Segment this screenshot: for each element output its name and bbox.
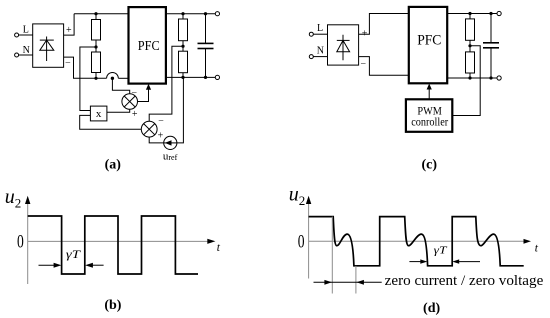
- svg-text:u2: u2: [289, 183, 306, 208]
- junction current sense tap: [111, 77, 114, 80]
- waveform with resonant transitions u2 (d): [309, 217, 524, 266]
- wire top rail right (c): [447, 13, 497, 15]
- svg-text:x: x: [96, 108, 102, 120]
- resistor R4: [179, 46, 188, 77]
- resistor R5: [466, 14, 475, 46]
- op block U2 PFC (c): [409, 7, 447, 83]
- wire output divider tap to S2: [149, 46, 183, 121]
- arrowhead into PFC (c): [427, 84, 432, 90]
- terminal output top (c): [497, 11, 501, 15]
- wire BR1 minus to bottom rail: [64, 57, 107, 78]
- wire BR2 plus to top rail: [359, 14, 409, 35]
- op block U1 PFC (a): [129, 7, 166, 84]
- terminal output bottom (a): [215, 75, 219, 79]
- wire hump to PFC left: [118, 77, 128, 79]
- resistor R1: [92, 14, 101, 47]
- axis horizontal t (b): [28, 240, 208, 242]
- svg-text:PFC: PFC: [138, 39, 160, 54]
- resistor R2: [92, 47, 101, 78]
- wire BR1 plus to top rail: [64, 14, 75, 35]
- wire L to rectifier (a): [19, 34, 33, 36]
- wire S2 to uref source: [149, 137, 164, 143]
- waveform square wave u2 (b): [28, 216, 198, 274]
- resistor R3: [179, 14, 188, 47]
- svg-text:zero current / zero voltage: zero current / zero voltage: [385, 273, 544, 289]
- terminal output bottom (c): [497, 76, 501, 80]
- resistor R6: [466, 46, 475, 78]
- wire bottom rail right (a): [166, 76, 216, 78]
- multiplier X1 box: [90, 106, 107, 121]
- summer S2 circle: [141, 121, 157, 137]
- terminal output top (a): [215, 12, 219, 16]
- wire L to rectifier (c): [313, 33, 327, 35]
- junction R4 bottom: [181, 76, 184, 79]
- svg-text:γT: γT: [434, 245, 448, 257]
- arrowhead into PFC (a): [146, 84, 151, 90]
- wire S1 output to PFC gate: [138, 89, 149, 102]
- wire divider tap to PWM controller: [452, 46, 480, 116]
- summer S1 circle: [122, 94, 138, 110]
- axis vertical u2 (d): [308, 203, 310, 279]
- PWM controller box: [406, 99, 452, 132]
- capacitor C1: [198, 14, 214, 78]
- interval arrow right (d): [356, 280, 364, 285]
- svg-text:u2: u2: [5, 186, 22, 210]
- dim arrow left (b): [39, 263, 62, 268]
- svg-text:–: –: [65, 57, 71, 67]
- marker line transition start (d): [331, 217, 333, 294]
- junction R5 R6 midpoint: [468, 44, 471, 47]
- terminal L input (a): [15, 33, 19, 37]
- dim arrow left gammaT (d): [409, 259, 427, 263]
- terminal N input (a): [15, 53, 19, 57]
- bridge rectifier BR2 box: [328, 25, 359, 65]
- wire PWM to PFC gate: [428, 89, 430, 99]
- wire top rail left (a): [74, 13, 128, 15]
- junction R2 bottom: [94, 77, 97, 80]
- svg-text:t: t: [217, 242, 221, 254]
- wire current tap to summer S1: [112, 78, 129, 93]
- wire bottom rail right (c): [447, 77, 497, 79]
- axis arrowhead right (b): [207, 239, 215, 244]
- svg-text:(b): (b): [104, 298, 121, 313]
- svg-text:uref: uref: [163, 150, 178, 162]
- axis horizontal t (d): [309, 240, 525, 242]
- capacitor C2: [483, 14, 499, 79]
- junction C2 bottom: [489, 76, 492, 79]
- svg-text:N: N: [23, 45, 30, 56]
- wire uref return to bottom rail: [177, 77, 184, 142]
- svg-text:(c): (c): [422, 157, 438, 172]
- axis arrowhead right (d): [524, 239, 532, 244]
- wire X1 output to S1: [107, 109, 130, 112]
- svg-text:–: –: [360, 58, 366, 68]
- junction R1 R2 midpoint: [94, 45, 97, 48]
- wire top rail right (a): [166, 13, 216, 15]
- wire BR2 minus to PFC bottom left: [359, 57, 409, 76]
- junction R6 bottom: [468, 76, 471, 79]
- junction R3 R4 midpoint: [181, 45, 184, 48]
- svg-text:0: 0: [17, 232, 24, 252]
- svg-text:L: L: [23, 24, 29, 35]
- svg-text:–: –: [158, 115, 164, 125]
- current sense hump: [107, 72, 119, 78]
- svg-text:(a): (a): [105, 158, 122, 173]
- junction R3 top: [181, 12, 184, 15]
- svg-text:L: L: [317, 23, 323, 34]
- junction C1 top: [204, 12, 207, 15]
- junction R5 top: [468, 12, 471, 15]
- svg-text:+: +: [66, 25, 72, 36]
- wire N to rectifier (a): [19, 54, 33, 56]
- marker line transition end (d): [355, 266, 357, 294]
- axis arrowhead up (d): [306, 196, 311, 204]
- svg-text:+: +: [132, 109, 138, 120]
- svg-text:γT: γT: [66, 249, 81, 261]
- dim arrow right (b): [85, 263, 104, 268]
- axis vertical u2 (b): [27, 203, 29, 284]
- axis arrowhead up (b): [25, 196, 30, 204]
- junction R1 top: [94, 12, 97, 15]
- svg-text:+: +: [158, 131, 164, 142]
- source uref circle: [164, 136, 177, 149]
- svg-text:t: t: [535, 242, 539, 254]
- svg-text:0: 0: [298, 232, 305, 252]
- dim arrow right gammaT (d): [452, 259, 480, 263]
- terminal N input (c): [309, 55, 313, 59]
- wire N to rectifier (c): [313, 56, 327, 58]
- svg-text:–: –: [131, 86, 137, 96]
- interval arrow left (d): [314, 280, 382, 285]
- svg-text:conroller: conroller: [411, 115, 448, 129]
- diode D2 inside BR2: [337, 35, 350, 61]
- svg-text:(d): (d): [423, 301, 440, 316]
- junction C2 top: [489, 12, 492, 15]
- diode D1 inside BR1: [40, 37, 54, 62]
- svg-text:N: N: [317, 46, 324, 57]
- wire S2 output to multiplier lower input: [80, 115, 142, 129]
- bridge rectifier BR1 box: [33, 24, 64, 67]
- terminal L input (c): [309, 32, 313, 36]
- svg-text:PFC: PFC: [417, 33, 441, 49]
- junction C1 bottom: [204, 76, 207, 79]
- wire divider midpoint to multiplier upper input: [80, 47, 96, 111]
